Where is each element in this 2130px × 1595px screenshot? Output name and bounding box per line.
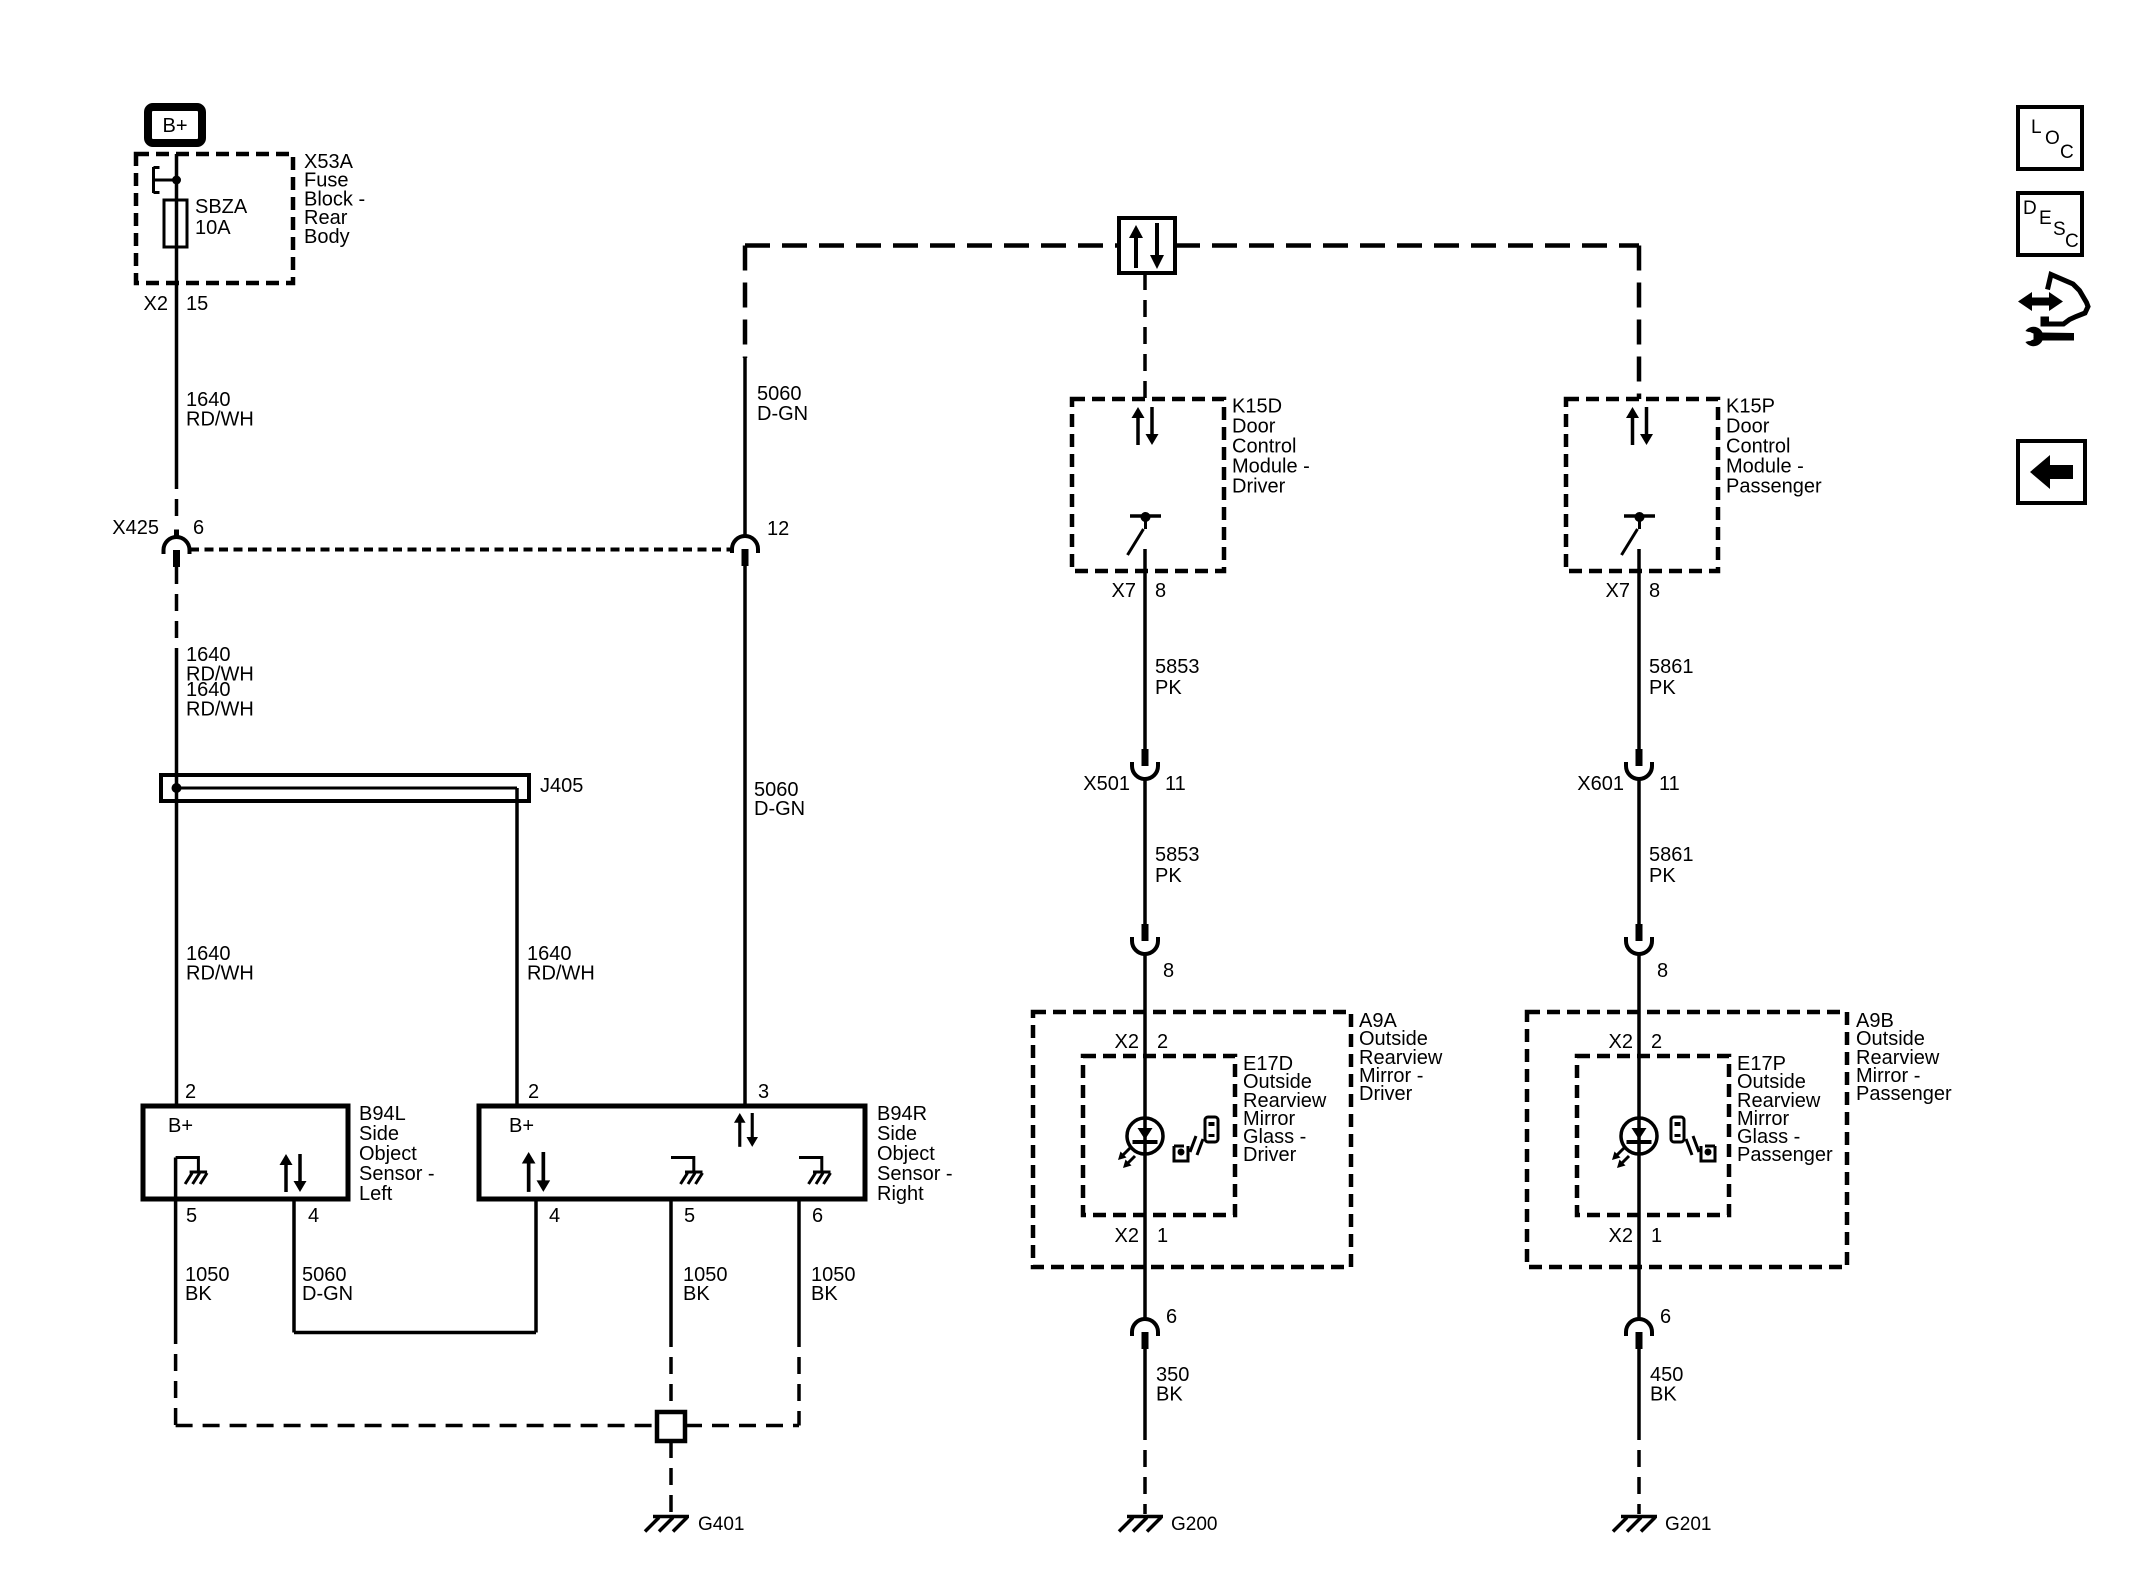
svg-text:RD/WH: RD/WH [186, 409, 254, 431]
svg-text:D: D [2023, 198, 2037, 219]
svg-text:BK: BK [683, 1283, 710, 1305]
svg-text:Control: Control [1726, 436, 1790, 458]
svg-text:B+: B+ [509, 1115, 534, 1137]
svg-text:J405: J405 [540, 775, 583, 797]
svg-text:SBZA: SBZA [195, 196, 248, 218]
svg-text:G401: G401 [698, 1514, 744, 1535]
svg-text:Object: Object [877, 1143, 935, 1165]
svg-text:6: 6 [1660, 1306, 1671, 1328]
svg-text:X425: X425 [112, 517, 159, 539]
svg-text:X501: X501 [1083, 773, 1130, 795]
svg-text:X7: X7 [1112, 580, 1136, 602]
svg-text:X2: X2 [144, 293, 168, 315]
svg-text:Left: Left [359, 1183, 393, 1205]
svg-text:6: 6 [812, 1205, 823, 1227]
svg-text:2: 2 [185, 1081, 196, 1103]
svg-text:11: 11 [1659, 773, 1680, 795]
svg-text:3: 3 [758, 1081, 769, 1103]
svg-text:BK: BK [811, 1283, 838, 1305]
svg-text:B+: B+ [162, 115, 187, 137]
svg-text:K15P: K15P [1726, 396, 1775, 418]
svg-text:4: 4 [549, 1205, 560, 1227]
svg-text:C: C [2060, 142, 2074, 163]
svg-text:2: 2 [528, 1081, 539, 1103]
svg-text:Module -: Module - [1726, 456, 1804, 478]
svg-text:PK: PK [1649, 865, 1676, 887]
svg-text:1: 1 [1651, 1225, 1662, 1247]
svg-text:D-GN: D-GN [302, 1283, 353, 1305]
svg-text:Driver: Driver [1243, 1144, 1297, 1166]
svg-text:Side: Side [359, 1123, 399, 1145]
svg-text:X7: X7 [1606, 580, 1630, 602]
svg-text:PK: PK [1155, 865, 1182, 887]
svg-text:8: 8 [1155, 580, 1166, 602]
svg-text:5861: 5861 [1649, 844, 1694, 866]
svg-text:RD/WH: RD/WH [186, 963, 254, 985]
svg-text:RD/WH: RD/WH [527, 963, 595, 985]
svg-text:Module -: Module - [1232, 456, 1310, 478]
svg-text:Body: Body [304, 226, 350, 248]
svg-text:K15D: K15D [1232, 396, 1282, 418]
svg-text:O: O [2045, 128, 2060, 149]
svg-text:PK: PK [1155, 677, 1182, 699]
svg-text:5: 5 [186, 1205, 197, 1227]
svg-text:8: 8 [1163, 960, 1174, 982]
svg-text:D-GN: D-GN [757, 403, 808, 425]
svg-text:BK: BK [1156, 1384, 1183, 1406]
svg-text:5853: 5853 [1155, 844, 1200, 866]
svg-text:2: 2 [1157, 1031, 1168, 1053]
svg-text:5853: 5853 [1155, 656, 1200, 678]
svg-text:6: 6 [193, 517, 204, 539]
svg-text:L: L [2031, 117, 2042, 138]
svg-text:5060: 5060 [757, 383, 802, 405]
svg-text:Passenger: Passenger [1737, 1144, 1833, 1166]
svg-text:RD/WH: RD/WH [186, 699, 254, 721]
svg-text:4: 4 [308, 1205, 319, 1227]
svg-text:D-GN: D-GN [754, 798, 805, 820]
svg-text:Door: Door [1726, 416, 1770, 438]
svg-text:Side: Side [877, 1123, 917, 1145]
svg-text:S: S [2053, 219, 2066, 240]
svg-text:PK: PK [1649, 677, 1676, 699]
svg-text:Sensor -: Sensor - [877, 1163, 953, 1185]
svg-text:Driver: Driver [1359, 1083, 1413, 1105]
svg-text:Control: Control [1232, 436, 1296, 458]
svg-text:Sensor -: Sensor - [359, 1163, 435, 1185]
svg-text:11: 11 [1165, 773, 1186, 795]
svg-text:8: 8 [1657, 960, 1668, 982]
svg-text:B+: B+ [168, 1115, 193, 1137]
svg-text:15: 15 [186, 293, 208, 315]
svg-text:12: 12 [767, 518, 789, 540]
svg-text:Passenger: Passenger [1726, 476, 1822, 498]
svg-text:1: 1 [1157, 1225, 1168, 1247]
svg-text:E: E [2039, 208, 2052, 229]
svg-text:Driver: Driver [1232, 476, 1286, 498]
svg-text:5861: 5861 [1649, 656, 1694, 678]
svg-text:C: C [2065, 231, 2079, 252]
svg-text:B94R: B94R [877, 1103, 927, 1125]
svg-text:Object: Object [359, 1143, 417, 1165]
svg-text:Passenger: Passenger [1856, 1083, 1952, 1105]
svg-text:X2: X2 [1609, 1225, 1633, 1247]
svg-text:2: 2 [1651, 1031, 1662, 1053]
svg-text:X2: X2 [1115, 1225, 1139, 1247]
svg-text:BK: BK [185, 1283, 212, 1305]
svg-text:Door: Door [1232, 416, 1276, 438]
svg-text:X601: X601 [1577, 773, 1624, 795]
svg-text:6: 6 [1166, 1306, 1177, 1328]
svg-text:BK: BK [1650, 1384, 1677, 1406]
svg-text:B94L: B94L [359, 1103, 406, 1125]
svg-text:X2: X2 [1609, 1031, 1633, 1053]
svg-text:8: 8 [1649, 580, 1660, 602]
svg-text:5: 5 [684, 1205, 695, 1227]
svg-text:G200: G200 [1171, 1514, 1217, 1535]
svg-text:Right: Right [877, 1183, 924, 1205]
svg-text:G201: G201 [1665, 1514, 1711, 1535]
svg-text:X2: X2 [1115, 1031, 1139, 1053]
svg-text:10A: 10A [195, 217, 231, 239]
